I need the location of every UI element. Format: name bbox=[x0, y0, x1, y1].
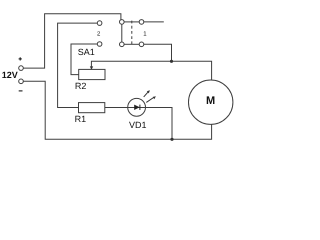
junction node dot at wiper/motor rail bbox=[170, 60, 173, 63]
battery terminal - (circle) bbox=[19, 79, 24, 84]
wire: right bottom circle down to node bbox=[144, 44, 172, 61]
switch SA1 contact 2 bottom circle bbox=[97, 42, 102, 47]
wire: - terminal down to bottom rail to motor bbox=[23, 81, 211, 139]
wire: SA1 top contact to R1 bbox=[58, 23, 98, 107]
junction node dot at bottom rail bbox=[170, 138, 173, 141]
wire: jumper bar between left circles bbox=[121, 24, 123, 42]
LED VD1 emission arrow 1 bbox=[144, 90, 150, 97]
wire: stub from right top circle bbox=[144, 21, 164, 23]
connector position 1 left top circle bbox=[120, 20, 125, 25]
LED VD1 emission arrow 2 bbox=[146, 96, 156, 102]
svg-text:R2: R2 bbox=[75, 81, 87, 91]
resistor R1 body bbox=[79, 103, 105, 113]
LED VD1 cathode bar bbox=[139, 105, 141, 110]
connector mating plane (dashed) bbox=[131, 21, 133, 46]
wire: top row link between connector halves bbox=[124, 21, 139, 23]
svg-text:R1: R1 bbox=[75, 114, 87, 124]
connector position 1 right top circle bbox=[139, 20, 144, 25]
svg-text:M: M bbox=[206, 95, 215, 107]
wire: + terminal to top rail bbox=[23, 14, 121, 68]
svg-text:SA1: SA1 bbox=[78, 47, 95, 57]
svg-text:VD1: VD1 bbox=[129, 120, 147, 130]
wire: R1 to VD1 to bottom rail bbox=[105, 108, 172, 140]
motor M circle bbox=[189, 80, 233, 124]
LED VD1 circle bbox=[128, 98, 146, 116]
switch SA1 contact 2 top circle bbox=[97, 21, 102, 26]
wire: R2 wiper to motor top rail bbox=[91, 61, 211, 80]
connector position 1 right bottom circle bbox=[139, 42, 144, 47]
wiper arrowhead on R2 bbox=[90, 66, 93, 69]
battery terminal + (circle) bbox=[19, 66, 24, 71]
wire: bottom row link between connector halves bbox=[124, 43, 139, 45]
resistor R2 (variable) body bbox=[79, 69, 105, 79]
wire: SA1 bottom contact to R2 bbox=[71, 44, 97, 75]
connector position 1 left bottom circle bbox=[120, 42, 125, 47]
label - polarity bbox=[19, 90, 23, 92]
LED VD1 diode triangle bbox=[134, 105, 140, 110]
svg-text:12V: 12V bbox=[2, 70, 18, 80]
label + polarity bbox=[19, 57, 22, 60]
